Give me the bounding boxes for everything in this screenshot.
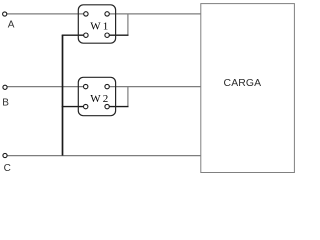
- svg-text:B: B: [2, 98, 9, 109]
- svg-text:W 2: W 2: [90, 93, 108, 105]
- svg-text:A: A: [8, 19, 15, 30]
- svg-text:W 1: W 1: [90, 21, 108, 33]
- svg-text:CARGA: CARGA: [224, 78, 262, 89]
- svg-text:C: C: [4, 163, 11, 174]
